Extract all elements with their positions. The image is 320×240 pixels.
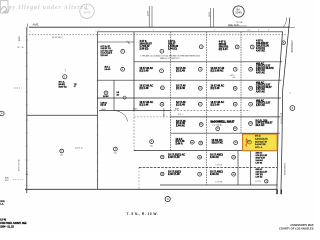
svg-text:13: 13	[199, 88, 201, 90]
row 3 parcels	[104, 91, 108, 95]
right street (slanted)	[277, 32, 283, 194]
svg-text:20: 20	[200, 124, 202, 126]
svg-text:32: 32	[233, 174, 235, 176]
svg-text:4.47 AC: 4.47 AC	[256, 90, 265, 93]
svg-text:(C) 2.48: (C) 2.48	[211, 87, 220, 90]
svg-text:a: a	[153, 30, 154, 32]
svg-text:26: 26	[235, 142, 237, 144]
svg-text:py Illegal under Altered: py Illegal under Altered	[8, 5, 88, 11]
watermark	[1, 1, 95, 19]
svg-text:10: 10	[250, 69, 252, 71]
svg-text:2.48 AC: 2.48 AC	[210, 156, 219, 159]
svg-text:2104 - 21, 22: 2104 - 21, 22	[0, 225, 14, 228]
svg-text:LOT 12: LOT 12	[256, 176, 264, 178]
svg-text:LOT + A: LOT + A	[255, 146, 263, 149]
svg-text:AVE.: AVE.	[102, 108, 107, 111]
svg-text:(C) 2.5: (C) 2.5	[101, 105, 107, 107]
svg-text:27: 27	[74, 86, 76, 88]
curve in col B	[114, 111, 128, 122]
svg-text:LOT 12: LOT 12	[255, 181, 261, 183]
svg-text:4: 4	[237, 46, 238, 49]
svg-text:6: 6	[122, 69, 123, 71]
svg-text:2: 2	[161, 51, 162, 53]
svg-text:11: 11	[105, 93, 107, 95]
svg-text:(C) 2.48 AC: (C) 2.48 AC	[211, 69, 224, 72]
svg-text:320.57 AC: 320.57 AC	[212, 141, 224, 144]
svg-text:LONGVIEW: LONGVIEW	[290, 40, 292, 53]
svg-text:18: 18	[234, 104, 236, 106]
svg-text:LU 4): LU 4)	[0, 218, 6, 221]
svg-text:12: 12	[161, 87, 163, 89]
svg-text:40.57 AC: 40.57 AC	[59, 85, 68, 88]
svg-text:377 4): 377 4)	[255, 135, 261, 138]
svg-text:ST C: ST C	[19, 36, 21, 41]
svg-text:(C) 2.48: (C) 2.48	[211, 104, 220, 107]
svg-text:1 THE AVE. 40, 50 AND LOTS 44: 1 THE AVE. 40, 50 AND LOTS 44 SHOWN ON T…	[140, 55, 200, 58]
svg-text:LOT M: LOT M	[216, 181, 223, 183]
svg-text:22: 22	[234, 128, 236, 130]
svg-text:2.5 AC: 2.5 AC	[105, 68, 111, 71]
svg-text:40±: 40±	[114, 153, 117, 155]
street stub 2	[210, 8, 212, 27]
svg-text:a: a	[96, 30, 97, 32]
svg-text:2.44 (C): 2.44 (C)	[168, 48, 177, 51]
svg-text:a: a	[98, 30, 99, 32]
svg-text:2.88 (C): 2.88 (C)	[140, 48, 149, 51]
svg-text:28: 28	[199, 157, 201, 159]
svg-text:2: 2	[268, 30, 269, 32]
svg-text:MAP NO 1.5 DISTRICT: MAP NO 1.5 DISTRICT	[160, 57, 181, 60]
svg-text:15: 15	[250, 88, 252, 90]
svg-text:a 4: a 4	[247, 30, 249, 32]
svg-text:2.5 AC: 2.5 AC	[103, 95, 109, 98]
parcel grid vertical lines	[96, 32, 98, 189]
svg-text:4.47 AC: 4.47 AC	[256, 50, 265, 53]
svg-text:21: 21	[217, 128, 219, 130]
svg-text:14: 14	[234, 87, 236, 90]
svg-text:(C) 2.48: (C) 2.48	[140, 104, 149, 107]
svg-text:30: 30	[22, 47, 24, 49]
svg-text:3045: 3045	[83, 11, 91, 15]
svg-text:(C) 2.48 AC: (C) 2.48 AC	[213, 123, 224, 126]
svg-text:4.47 AC: 4.47 AC	[256, 71, 265, 74]
svg-text:2.48 AC: 2.48 AC	[210, 173, 219, 176]
svg-text:LOT N: LOT N	[216, 164, 223, 166]
section line bottom	[25, 188, 277, 190]
svg-text:27: 27	[161, 157, 163, 159]
svg-text:12.5 AC: 12.5 AC	[101, 54, 109, 57]
svg-text:AVE.: AVE.	[33, 23, 40, 27]
svg-text:29.4 AC: 29.4 AC	[256, 124, 265, 127]
svg-text:17: 17	[199, 104, 201, 106]
svg-text:FOR PREV. ASSMT. SEE: FOR PREV. ASSMT. SEE	[0, 222, 27, 225]
svg-text:(C) 2.48: (C) 2.48	[176, 87, 185, 90]
row 7 parcels	[161, 155, 164, 158]
svg-text:8: 8	[200, 69, 201, 71]
svg-text:AVE. M-8: AVE. M-8	[228, 24, 239, 27]
svg-text:4: 4	[258, 30, 259, 32]
svg-text:(LOT 1): (LOT 1)	[75, 148, 83, 150]
svg-text:2.48 17.48: 2.48 17.48	[168, 156, 180, 159]
quarter section dashed line	[29, 34, 287, 36]
svg-text:4.28 AC (2.17): 4.28 AC (2.17)	[255, 137, 268, 140]
row 6 parcels	[190, 140, 194, 144]
svg-text:McDONNELL 320.57: McDONNELL 320.57	[211, 121, 235, 124]
svg-text:25: 25	[200, 143, 202, 145]
svg-text:40±: 40±	[150, 145, 153, 147]
svg-text:1/2 THE: 1/2 THE	[236, 22, 243, 24]
svg-text:5: 5	[252, 47, 253, 49]
highlighted parcel (yellow)	[243, 134, 278, 151]
svg-text:T. 5 N., R. 10 W.: T. 5 N., R. 10 W.	[127, 212, 159, 216]
svg-text:18±: 18±	[233, 77, 236, 79]
svg-text:AVE.: AVE.	[175, 107, 180, 110]
circled 4	[165, 196, 170, 201]
svg-text:(C) 2.48: (C) 2.48	[176, 104, 185, 107]
svg-text:2.44 AC: 2.44 AC	[176, 124, 185, 127]
left street	[27, 24, 29, 28]
svg-text:2.48 17.48: 2.48 17.48	[168, 173, 180, 176]
svg-text:9: 9	[235, 69, 236, 71]
lower left parcels	[60, 149, 64, 153]
left edge circle	[0, 111, 4, 116]
svg-text:COUNTY OF LOS ANGELES: COUNTY OF LOS ANGELES	[279, 227, 314, 231]
svg-text:27: 27	[248, 142, 250, 144]
street stub 1	[148, 6, 150, 27]
svg-text:(C) 2.44: (C) 2.44	[219, 48, 228, 51]
svg-text:30: 30	[17, 47, 19, 49]
svg-text:90TH ST W: 90TH ST W	[19, 159, 21, 171]
avenue top	[29, 26, 290, 28]
svg-text:55TH: 55TH	[147, 11, 149, 16]
svg-text:3: 3	[201, 46, 202, 48]
svg-text:a: a	[214, 30, 215, 32]
svg-text:2.57 AC: 2.57 AC	[256, 104, 265, 107]
svg-text:40±: 40±	[60, 155, 63, 157]
svg-text:± 4: ± 4	[26, 174, 29, 176]
svg-text:LOT 11: LOT 11	[256, 163, 264, 165]
svg-text:2: 2	[61, 151, 62, 153]
svg-text:7: 7	[161, 70, 162, 72]
svg-text:50TH: 50TH	[209, 12, 211, 17]
svg-text:3: 3	[266, 181, 267, 183]
svg-text:(N 89°58 E): (N 89°58 E)	[52, 37, 63, 39]
svg-text:24: 24	[191, 141, 193, 144]
svg-text:AVE: AVE	[5, 177, 10, 180]
svg-text:29: 29	[233, 157, 235, 159]
svg-text:2.44 AC 320: 2.44 AC 320	[255, 143, 266, 146]
svg-text:(C) 2.48: (C) 2.48	[140, 87, 149, 90]
svg-text:(C) 2.48: (C) 2.48	[140, 69, 149, 72]
svg-text:30: 30	[161, 174, 163, 176]
svg-text:2.44 A: 2.44 A	[176, 143, 183, 146]
svg-text:3: 3	[115, 149, 116, 151]
parcel grid horizontal lines	[97, 31, 283, 33]
svg-text:16: 16	[161, 104, 163, 106]
svg-text:LONGVIEW: LONGVIEW	[283, 163, 285, 176]
book number circle BK 3045	[233, 6, 244, 17]
svg-text:31: 31	[199, 174, 201, 176]
svg-text:23: 23	[250, 123, 252, 125]
svg-text:ASSESSOR'S MAP: ASSESSOR'S MAP	[290, 223, 314, 227]
svg-text:AVE.: AVE.	[133, 108, 138, 111]
svg-text:4: 4	[151, 140, 152, 143]
svg-text:1: 1	[122, 51, 123, 53]
svg-text:L.A.: L.A.	[0, 203, 4, 206]
svg-text:47TH ST E: 47TH ST E	[280, 113, 282, 124]
svg-text:a: a	[30, 31, 31, 33]
row 8 parcels	[161, 172, 164, 175]
svg-text:(C) 2.48: (C) 2.48	[176, 69, 185, 72]
svg-text:3045: 3045	[235, 11, 242, 15]
svg-text:19: 19	[250, 104, 252, 106]
svg-text:4.57 ±: 4.57 ±	[178, 114, 183, 116]
svg-text:29.57 (C) 7.57: 29.57 (C) 7.57	[255, 141, 267, 143]
